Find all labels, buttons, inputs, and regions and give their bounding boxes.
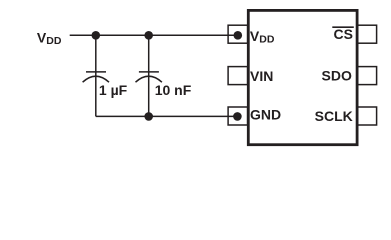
pin SDO box xyxy=(357,67,377,85)
net VDD label xyxy=(37,29,62,47)
pin GND dot xyxy=(233,112,242,121)
capacitor C1 value 1 uF xyxy=(99,82,128,98)
pin label GND xyxy=(250,107,281,123)
pin GND box xyxy=(228,107,248,125)
wire bottom ground return xyxy=(96,115,237,117)
pin CS box xyxy=(357,25,377,43)
svg-text:VIN: VIN xyxy=(250,68,273,84)
capacitor C2 value 10 nF xyxy=(155,82,192,98)
svg-text:SDO: SDO xyxy=(322,68,352,84)
svg-text:SCLK: SCLK xyxy=(315,108,353,124)
pin label CS with overline xyxy=(332,26,354,42)
capacitor C2 xyxy=(136,35,162,116)
pin VDD box (pin 1) xyxy=(228,25,248,43)
junction at C2 top xyxy=(144,31,153,40)
IC U1 body xyxy=(248,10,357,144)
svg-text:GND: GND xyxy=(250,107,281,123)
pin label SCLK xyxy=(315,108,353,124)
svg-text:10 nF: 10 nF xyxy=(155,82,192,98)
pin VIN box xyxy=(228,67,248,85)
capacitor C1 xyxy=(83,35,109,116)
junction at C1 top xyxy=(92,31,101,40)
pin label VDD xyxy=(250,28,275,46)
wire top VDD rail xyxy=(70,34,237,36)
svg-text:CS: CS xyxy=(334,26,353,42)
pin label VIN xyxy=(250,68,273,84)
svg-text:1 µF: 1 µF xyxy=(99,82,128,98)
pin SCLK box xyxy=(357,107,377,125)
pin label SDO xyxy=(322,68,352,84)
pin VDD dot xyxy=(234,31,243,40)
junction at C2 bottom xyxy=(144,112,153,121)
